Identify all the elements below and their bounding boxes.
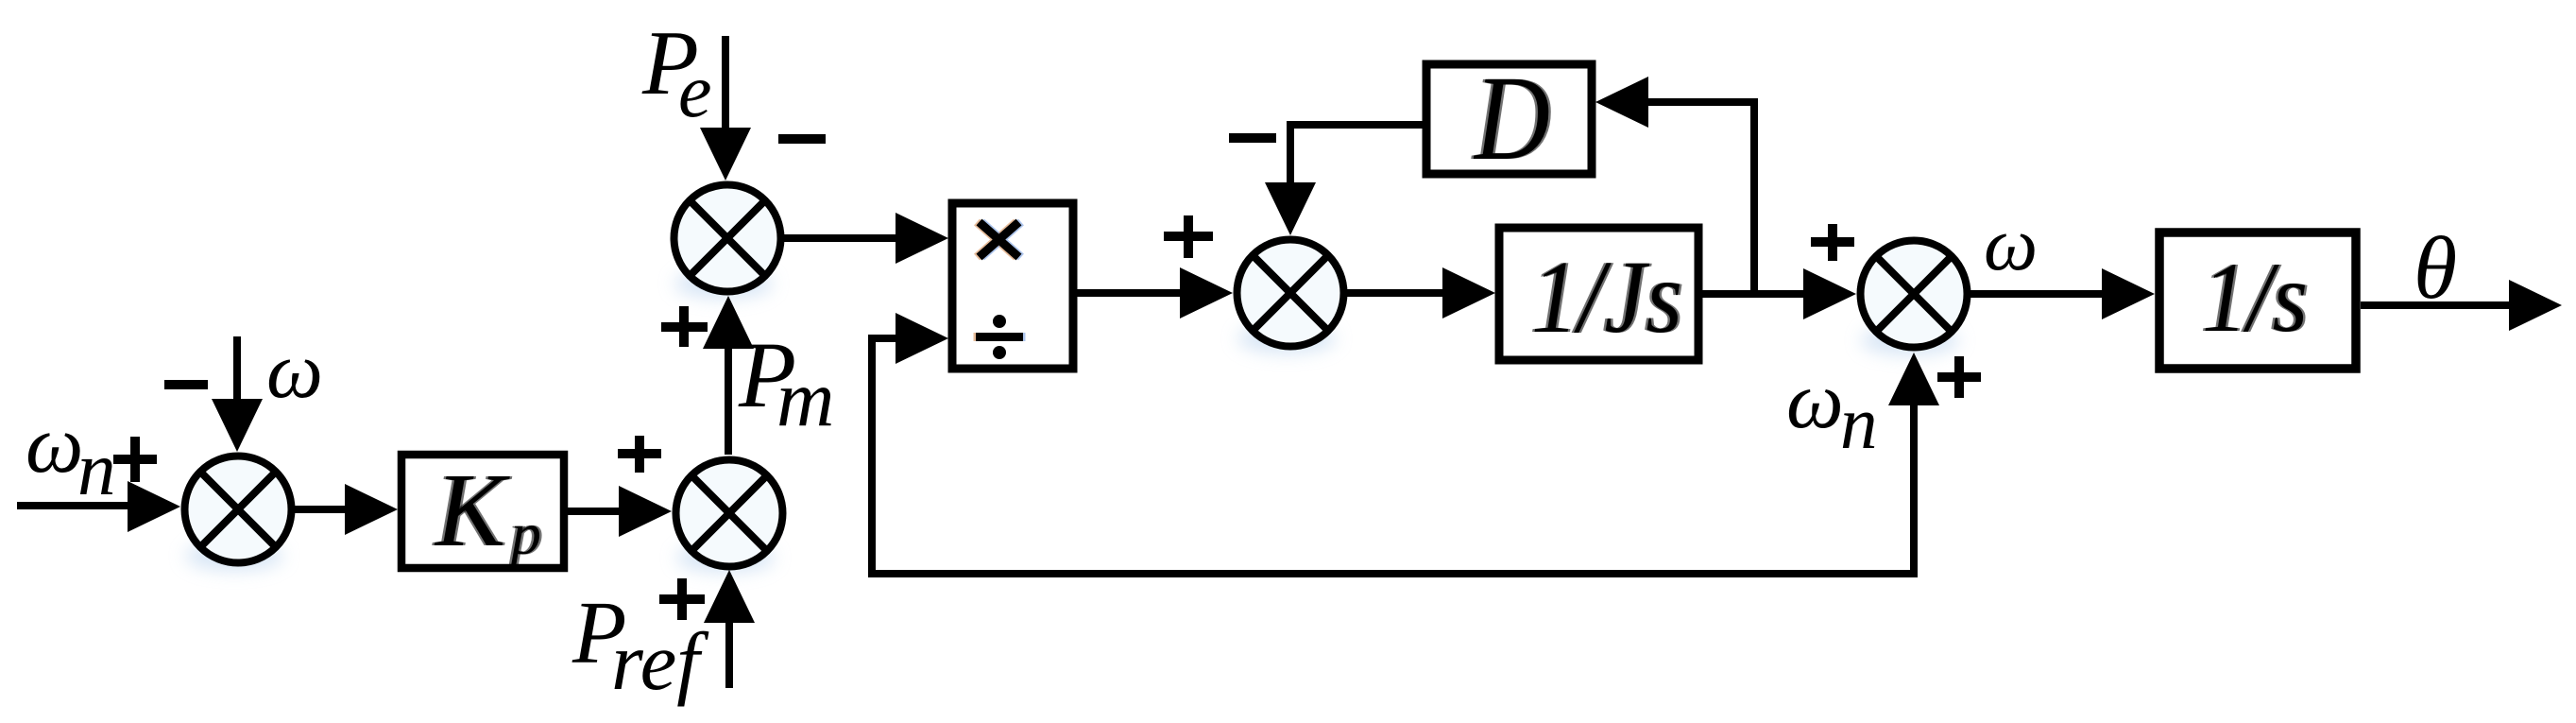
arrow into summing junction D left (1180, 267, 1233, 318)
svg-text:ω: ω (266, 326, 323, 415)
label omega_n (bottom input to E) (1786, 354, 1878, 465)
summing junction A (674, 185, 781, 292)
plus sign at B left input (113, 437, 157, 482)
plus sign at A bottom input (661, 306, 708, 347)
block Kp (401, 453, 564, 569)
svg-text:ω: ω (26, 398, 83, 490)
label Pm (738, 322, 834, 443)
wire omega input vertical (233, 336, 241, 402)
arrow into multiplier input (896, 213, 948, 264)
wire Pref input vertical (725, 619, 733, 688)
arrow into Kp block (345, 484, 398, 535)
summing junction D (1237, 240, 1344, 347)
arrow into summing junction B top (212, 399, 263, 452)
shadow glow under summing junction D (1237, 323, 1336, 353)
wire A to multiplier-divider block (781, 234, 897, 242)
plus sign at C left input (618, 436, 661, 473)
arrow into summing junction B left (128, 481, 180, 532)
wire omega_n input (17, 502, 132, 509)
summing junction C (676, 460, 783, 567)
arrow into summing junction E left (1803, 268, 1856, 319)
wire Pe input vertical (722, 36, 729, 132)
arrow into summing junction E bottom (1888, 353, 1939, 405)
svg-text:1/Js: 1/Js (1531, 239, 1682, 354)
svg-text:ω: ω (1786, 354, 1844, 445)
arrow into summing junction A top (700, 128, 751, 181)
label omega_n (left input) (26, 398, 116, 511)
summing junction B (185, 456, 292, 563)
label Pe (641, 12, 712, 133)
wire Kp to C (568, 508, 623, 515)
arrow into summing junction A bottom (703, 296, 754, 349)
minus sign at D top input (1229, 133, 1276, 143)
shadow glow under summing junction B (185, 541, 283, 571)
arrow into divider input (896, 313, 948, 364)
wire B to Kp (292, 506, 350, 513)
label Pref (571, 584, 709, 707)
block 1/Js (1499, 228, 1698, 360)
wire 1/Js output to E (1702, 290, 1806, 298)
shadow glow under summing junction E (1861, 325, 1959, 355)
wire feedback from 1/Js output to D block (1648, 102, 1754, 294)
minus sign at B top input (164, 380, 208, 389)
plus sign at E left input (1811, 224, 1854, 261)
svg-text:1/s: 1/s (2202, 242, 2308, 353)
minus sign at A top input (778, 134, 826, 144)
svg-text:p: p (507, 500, 541, 567)
feedback wire bottom: riser to divider input, bottom run, riser to E (872, 338, 1914, 574)
shadow glow under summing junction C (676, 542, 775, 573)
arrow into summing junction D top (1265, 182, 1316, 235)
plus sign at C bottom input (659, 578, 705, 620)
shadow glow under summing junction A (674, 268, 773, 299)
block multiplier-divider (952, 203, 1073, 369)
svg-text:m: m (776, 354, 834, 443)
svg-text:ref: ref (611, 615, 709, 707)
svg-text:n: n (77, 426, 116, 511)
block 1/s (2159, 232, 2356, 369)
svg-text:D: D (1473, 51, 1550, 185)
wire D to 1/Js (1343, 289, 1446, 297)
label theta (2414, 219, 2457, 318)
wire 1/s output (2361, 301, 2512, 309)
arrow into summing junction C bottom (704, 570, 755, 623)
wire multiplier-divider output (1073, 289, 1184, 297)
label omega (feedback into B) (266, 326, 323, 415)
plus sign at E bottom input (1937, 356, 1981, 398)
arrow into 1/Js block (1442, 267, 1495, 318)
arrow into summing junction C left (619, 486, 672, 537)
arrow into D block right input (1595, 77, 1648, 128)
svg-text:K: K (434, 453, 510, 569)
label omega (E output) (1984, 201, 2038, 286)
svg-text:e: e (678, 50, 712, 133)
wire C to A vertical (725, 345, 732, 455)
summing junction E (1861, 241, 1968, 348)
block D (1426, 51, 1592, 185)
wire D-block output down to D (1290, 125, 1426, 189)
wire E to 1/s (1968, 290, 2106, 298)
arrow output theta (2509, 280, 2562, 331)
arrow into 1/s block (2102, 268, 2155, 319)
svg-text:ω: ω (1984, 201, 2038, 286)
plus sign at D left input (1164, 215, 1213, 258)
svg-text:n: n (1840, 383, 1878, 465)
